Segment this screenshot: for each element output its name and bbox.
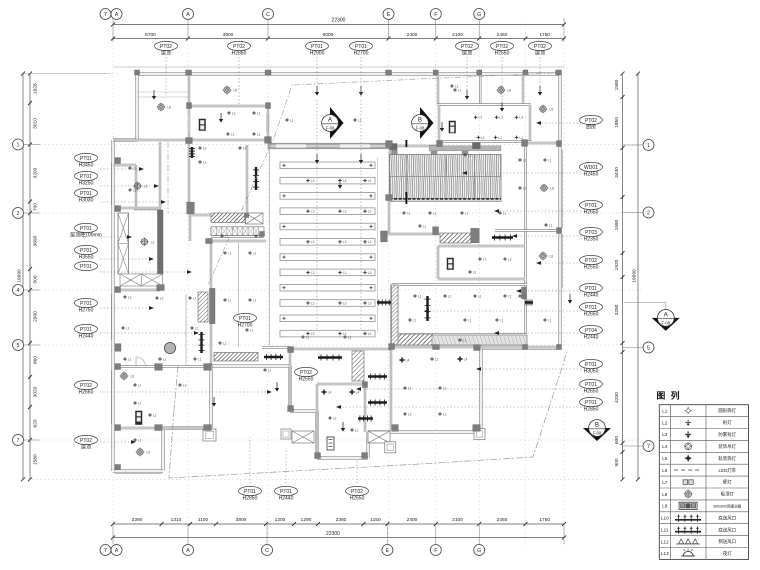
svg-text:L2: L2 (408, 412, 412, 416)
wall corridor top right (523, 142, 560, 144)
svg-text:L4: L4 (356, 391, 360, 395)
svg-text:L2: L2 (662, 420, 668, 425)
label PT01 left (75, 245, 98, 254)
wall bath2 left (316, 384, 318, 458)
svg-text:L1: L1 (523, 158, 527, 162)
svg-text:L1: L1 (473, 270, 477, 274)
svg-text:L3: L3 (343, 301, 347, 305)
columns (186, 70, 192, 75)
door frame 2 (474, 429, 485, 440)
lobby lamp (141, 239, 147, 245)
svg-text:3900: 3900 (223, 32, 234, 38)
wall closet left (289, 349, 291, 411)
wall bedroom-bl top (117, 365, 211, 367)
svg-text:L1: L1 (443, 412, 447, 416)
floor drain x-box 2 (368, 431, 390, 443)
svg-text:L1: L1 (418, 294, 422, 298)
canopy line (113, 66, 564, 68)
label PT01 right (580, 302, 603, 311)
svg-text:射灯: 射灯 (723, 419, 732, 426)
label PT01 right (580, 397, 603, 406)
svg-text:侧送风口: 侧送风口 (718, 538, 736, 545)
bottom overall dimension 22300 (113, 537, 564, 539)
svg-text:PT02: PT02 (80, 438, 92, 444)
grille 7 (377, 301, 391, 303)
svg-text:1850: 1850 (614, 117, 620, 128)
svg-text:2400: 2400 (407, 32, 418, 38)
living room side lines (269, 148, 271, 345)
svg-text:7: 7 (17, 438, 20, 444)
svg-text:防雾射灯: 防雾射灯 (718, 431, 736, 438)
threshold hatch bed-r2 (397, 334, 433, 345)
svg-text:H2750: H2750 (79, 307, 94, 313)
svg-text:PT01: PT01 (585, 382, 597, 388)
section marker B top (420, 107, 434, 139)
svg-text:L2: L2 (151, 240, 155, 244)
svg-text:L1: L1 (133, 166, 137, 170)
svg-text:H2700: H2700 (238, 322, 253, 328)
svg-text:PT02: PT02 (461, 44, 473, 50)
stair hatch (211, 213, 245, 223)
label PT02 H2550 in plan (295, 367, 318, 376)
svg-text:E: E (387, 12, 391, 18)
svg-text:L3: L3 (508, 257, 512, 261)
wardrobe hatch bed-r1 (392, 285, 399, 345)
svg-text:PT01: PT01 (80, 248, 92, 254)
svg-text:层顶: 层顶 (161, 50, 171, 56)
shaft side wall (158, 210, 164, 274)
grille 8 (525, 301, 533, 303)
svg-text:F-08: F-08 (326, 126, 335, 131)
svg-text:2450: 2450 (497, 32, 508, 38)
stove symbol kitchen (449, 121, 456, 133)
svg-text:L1: L1 (128, 357, 132, 361)
svg-text:L8: L8 (167, 106, 171, 110)
svg-text:L1: L1 (253, 298, 257, 302)
svg-text:L1: L1 (548, 158, 552, 162)
svg-text:L1: L1 (455, 84, 459, 88)
top grid bubbles (100, 9, 111, 20)
label PT02 bottom (346, 486, 369, 495)
svg-text:L2: L2 (355, 428, 359, 432)
svg-text:H2550: H2550 (299, 376, 314, 382)
svg-text:F: F (434, 12, 437, 18)
svg-text:L4: L4 (464, 358, 468, 362)
bottom segment dimensions (113, 523, 564, 525)
wall shaft bottom (117, 289, 160, 291)
svg-text:L2: L2 (508, 294, 512, 298)
wall top-left bedroom bottom (113, 139, 189, 141)
svg-text:L3: L3 (368, 240, 372, 244)
curtain track 2 (200, 332, 202, 353)
label PT02 层顶 top (155, 41, 178, 50)
svg-text:L1: L1 (498, 136, 502, 140)
svg-text:L3: L3 (311, 210, 315, 214)
svg-text:H3250: H3250 (79, 180, 94, 186)
label PT04 right (580, 325, 603, 334)
svg-text:层顶: 层顶 (462, 50, 472, 56)
svg-text:PT03: PT03 (585, 230, 597, 236)
right overall dimension 19990 (637, 74, 639, 480)
label PT02 right (580, 255, 603, 264)
svg-text:L8: L8 (507, 89, 511, 93)
svg-text:厨房: 厨房 (586, 123, 596, 130)
svg-text:B: B (418, 117, 422, 123)
svg-text:圆形筒灯: 圆形筒灯 (718, 407, 736, 414)
svg-text:L1: L1 (358, 118, 362, 122)
svg-text:LED灯带: LED灯带 (719, 467, 737, 474)
wall living top bulkhead (268, 143, 390, 149)
svg-text:L1: L1 (549, 223, 553, 227)
svg-text:L1: L1 (203, 160, 207, 164)
svg-text:H2850: H2850 (232, 50, 247, 56)
legend table frame (659, 405, 748, 560)
svg-text:L1: L1 (503, 211, 507, 215)
svg-text:L2: L2 (128, 295, 132, 299)
svg-text:H2440: H2440 (584, 292, 599, 298)
svg-text:L3: L3 (311, 332, 315, 336)
svg-text:底送风口: 底送风口 (718, 526, 736, 533)
wall lamp bath1 (447, 258, 454, 270)
svg-text:860: 860 (33, 356, 39, 364)
svg-text:H2350: H2350 (584, 236, 599, 242)
svg-text:H2850: H2850 (243, 495, 258, 501)
svg-text:L3: L3 (499, 116, 503, 120)
svg-text:C: C (265, 548, 269, 554)
svg-text:620: 620 (33, 419, 39, 427)
svg-text:L1: L1 (523, 186, 527, 190)
svg-text:H2900: H2900 (310, 50, 325, 56)
svg-text:L1: L1 (407, 211, 411, 215)
svg-text:L1: L1 (231, 132, 235, 136)
svg-text:1590: 1590 (614, 219, 620, 230)
svg-text:PT01: PT01 (80, 156, 92, 162)
door arc family room (136, 357, 146, 367)
svg-text:L11: L11 (661, 528, 669, 533)
wall stub G (479, 76, 481, 104)
balcony strip PT04 (432, 335, 527, 345)
section marker B bottom (583, 428, 611, 441)
svg-text:PT01: PT01 (239, 316, 251, 322)
site boundary line (169, 352, 567, 478)
svg-text:L13: L13 (661, 551, 669, 556)
label PT01 left (75, 324, 98, 333)
svg-text:L3: L3 (368, 301, 372, 305)
label PT01 H2700 in plan (234, 313, 257, 322)
svg-text:H2440: H2440 (279, 495, 294, 501)
svg-text:4: 4 (17, 288, 20, 294)
svg-text:L1: L1 (198, 357, 202, 361)
svg-text:2450: 2450 (497, 517, 508, 523)
svg-text:H2660: H2660 (79, 389, 94, 395)
label PT01 right (580, 200, 603, 209)
svg-text:L3: L3 (243, 146, 247, 150)
svg-text:B: B (595, 422, 599, 428)
svg-text:A: A (328, 117, 332, 123)
wall wood room left (389, 143, 391, 199)
svg-text:H2650: H2650 (584, 388, 599, 394)
wall bath1 bottom (438, 278, 525, 280)
outer wall (137, 72, 560, 75)
svg-text:L1: L1 (223, 341, 227, 345)
svg-text:1290: 1290 (301, 517, 312, 523)
wardrobe hatch dining (198, 292, 208, 322)
label PT02 H2550 top (491, 41, 514, 50)
label PT02 层顶 top (529, 41, 552, 50)
svg-text:H3030: H3030 (79, 197, 94, 203)
leader stems vertical (165, 57, 167, 96)
curtain track 3 (426, 296, 428, 321)
svg-text:L3: L3 (519, 116, 523, 120)
shower symbol (327, 437, 334, 450)
svg-text:PT02: PT02 (233, 44, 245, 50)
svg-text:L1: L1 (463, 338, 467, 342)
svg-text:2390: 2390 (132, 517, 143, 523)
wall bed-r2 top (391, 346, 560, 348)
svg-text:L1: L1 (413, 318, 417, 322)
svg-text:L1: L1 (423, 224, 427, 228)
wall dining top (209, 240, 266, 242)
svg-text:C: C (266, 12, 270, 18)
svg-text:PT02: PT02 (585, 258, 597, 264)
stair x-box (246, 213, 264, 224)
left segment dimensions (29, 74, 31, 480)
svg-text:L1: L1 (259, 234, 263, 238)
svg-text:L1: L1 (448, 294, 452, 298)
wall right corridor (524, 143, 526, 348)
wall wood room bottom (390, 200, 502, 202)
svg-text:L1: L1 (195, 326, 199, 330)
svg-text:L1: L1 (138, 383, 142, 387)
grille 2 (318, 356, 342, 358)
svg-text:L1: L1 (138, 401, 142, 405)
svg-text:PT01: PT01 (244, 489, 256, 495)
svg-text:L1: L1 (133, 188, 137, 192)
svg-text:夜灯: 夜灯 (723, 550, 732, 557)
svg-text:A: A (664, 312, 668, 318)
wardrobe hatch bath2 (352, 351, 364, 381)
svg-text:2: 2 (647, 210, 650, 216)
wall under stair (211, 235, 264, 237)
svg-text:2: 2 (17, 211, 20, 217)
svg-text:PT01: PT01 (585, 203, 597, 209)
svg-text:L12: L12 (661, 539, 669, 544)
svg-text:L3: L3 (343, 179, 347, 183)
svg-text:L1: L1 (193, 296, 197, 300)
wall kitchen top (437, 103, 531, 105)
label PT02 left (75, 380, 98, 389)
wall kitchen left (438, 105, 440, 142)
svg-text:500: 500 (33, 275, 39, 283)
svg-text:PT01: PT01 (280, 489, 292, 495)
wall entry notch right (135, 165, 137, 209)
svg-text:L6: L6 (662, 468, 668, 473)
svg-text:L8: L8 (130, 375, 134, 379)
svg-text:22300: 22300 (326, 531, 340, 537)
svg-text:F-08: F-08 (416, 126, 425, 131)
svg-text:H2440: H2440 (79, 333, 94, 339)
svg-text:L2: L2 (232, 111, 236, 115)
svg-text:3800: 3800 (236, 517, 247, 523)
svg-text:L1: L1 (306, 335, 310, 339)
curtain track entry (191, 147, 193, 158)
wall kitchen right (529, 105, 531, 142)
svg-text:L3: L3 (311, 179, 315, 183)
wall hall bottom (262, 346, 290, 348)
label WD01 right (580, 162, 603, 171)
svg-text:22300: 22300 (332, 18, 346, 24)
wall bedroom2 right (267, 106, 269, 143)
svg-text:WD01: WD01 (584, 165, 598, 171)
wall bath1 top (438, 245, 525, 247)
svg-text:H2700: H2700 (354, 50, 369, 56)
svg-text:PT01: PT01 (80, 174, 92, 180)
svg-text:PT01: PT01 (585, 400, 597, 406)
door frame 3 (281, 429, 291, 439)
wood ceiling WD01 (390, 155, 502, 199)
svg-text:1920: 1920 (614, 259, 620, 270)
label PT01 left (75, 153, 98, 162)
svg-text:F-08: F-08 (593, 431, 602, 436)
svg-text:L1: L1 (465, 211, 469, 215)
svg-text:L3: L3 (662, 432, 668, 437)
svg-text:1: 1 (17, 142, 20, 148)
washing machine symbol (136, 411, 143, 425)
svg-text:L5: L5 (662, 456, 668, 461)
svg-text:L2: L2 (333, 416, 337, 420)
label PT02 H2850 top (228, 41, 251, 50)
svg-text:700: 700 (33, 203, 39, 211)
svg-text:L1: L1 (348, 335, 352, 339)
svg-text:2360: 2360 (336, 517, 347, 523)
svg-text:L10: L10 (661, 516, 669, 521)
wall bath1 left (437, 246, 439, 279)
wall A-grid vertical (188, 74, 190, 215)
wall bath2 top (317, 383, 365, 385)
elevator shaft (118, 213, 129, 274)
grille 4 (368, 401, 387, 403)
svg-text:L1: L1 (257, 132, 261, 136)
svg-text:PT02: PT02 (496, 44, 508, 50)
svg-text:PT02: PT02 (534, 44, 546, 50)
svg-text:L8: L8 (233, 89, 237, 93)
svg-text:PT01: PT01 (585, 362, 597, 368)
closet divider dining (238, 243, 240, 347)
svg-text:L1: L1 (250, 328, 254, 332)
section marker A right (624, 302, 666, 304)
label PT01 left (75, 261, 98, 270)
svg-text:L2: L2 (160, 296, 164, 300)
svg-text:H2550: H2550 (584, 264, 599, 270)
svg-text:装饰吊灯: 装饰吊灯 (718, 443, 736, 450)
svg-text:L1: L1 (290, 118, 294, 122)
svg-text:L1: L1 (548, 318, 552, 322)
label PT02 层顶 top (456, 41, 479, 50)
svg-text:L3: L3 (478, 116, 482, 120)
svg-text:5: 5 (647, 345, 650, 351)
svg-text:300x600风暖浴霸: 300x600风暖浴霸 (713, 503, 742, 508)
wall bedroom-bl bottom (117, 427, 211, 429)
label PT01 right (580, 359, 603, 368)
svg-text:层顶: 层顶 (535, 50, 545, 56)
svg-text:A: A (186, 12, 190, 18)
svg-text:L1: L1 (225, 234, 229, 238)
svg-text:1580: 1580 (33, 454, 39, 465)
svg-text:1580: 1580 (614, 79, 620, 90)
stair tread band (211, 227, 264, 236)
svg-text:L3: L3 (368, 332, 372, 336)
grille 3 (368, 375, 387, 377)
svg-text:H3050: H3050 (584, 368, 599, 374)
structure dashdot entry (167, 142, 169, 213)
svg-text:L1: L1 (408, 386, 412, 390)
svg-text:图 列: 图 列 (657, 390, 682, 401)
wall bed-r2 left (390, 347, 392, 431)
svg-text:L1: L1 (458, 88, 462, 92)
slat lights (282, 164, 285, 166)
svg-text:L2: L2 (435, 357, 439, 361)
svg-text:2900: 2900 (33, 311, 39, 322)
svg-text:L3: L3 (368, 271, 372, 275)
svg-text:1928: 1928 (33, 83, 39, 94)
door frame 1 (385, 442, 396, 453)
svg-text:L3: L3 (311, 240, 315, 244)
svg-text:PT01: PT01 (355, 44, 367, 50)
svg-text:L3: L3 (368, 210, 372, 214)
wall entry notch top (113, 164, 136, 166)
svg-text:L1: L1 (662, 408, 668, 413)
closet front family room (185, 294, 187, 366)
left overall dimension 19990 (22, 74, 24, 480)
svg-text:E: E (386, 548, 390, 554)
top segment dimensions (113, 38, 564, 40)
svg-text:A: A (115, 548, 119, 554)
svg-text:1: 1 (647, 143, 650, 149)
svg-text:H2440: H2440 (584, 334, 599, 340)
wall shaft top (117, 207, 160, 209)
svg-text:层顶: 层顶 (81, 444, 91, 450)
svg-text:L1: L1 (433, 211, 437, 215)
svg-text:7: 7 (104, 548, 107, 554)
svg-text:G: G (477, 548, 481, 554)
svg-text:1750: 1750 (539, 517, 550, 523)
svg-text:H2550: H2550 (495, 50, 510, 56)
svg-text:PT01: PT01 (585, 305, 597, 311)
label PT01 left (75, 171, 98, 180)
svg-text:3200: 3200 (33, 167, 39, 178)
wall corridor bottom mid (380, 233, 440, 235)
svg-text:PT01: PT01 (80, 226, 92, 232)
wall bed-r1 left (390, 285, 392, 346)
svg-text:PT02: PT02 (80, 383, 92, 389)
svg-text:600: 600 (614, 436, 620, 444)
svg-text:L3: L3 (343, 271, 347, 275)
svg-text:L7: L7 (662, 480, 668, 485)
wall closet top (290, 348, 391, 350)
window lines outer walls (110, 162, 112, 205)
right grid bubbles (643, 140, 654, 151)
window curtain fills bedroom2 (188, 114, 191, 132)
svg-text:L3: L3 (343, 210, 347, 214)
svg-text:L1: L1 (468, 318, 472, 322)
label PT01 bottom (239, 486, 262, 495)
svg-text:PT01: PT01 (80, 191, 92, 197)
label PT01 H2900 top (306, 41, 329, 50)
svg-text:5: 5 (17, 343, 20, 349)
column circle (164, 342, 175, 353)
svg-text:3020: 3020 (33, 386, 39, 397)
svg-text:1150: 1150 (370, 517, 381, 523)
